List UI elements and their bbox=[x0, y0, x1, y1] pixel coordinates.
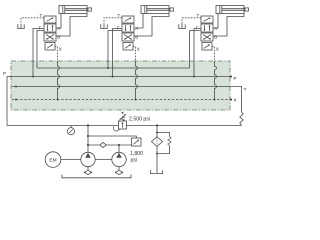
dashed pilot line valve V1 to X manifold line bbox=[55, 47, 58, 62]
junction dot V2 on P line bbox=[112, 76, 114, 78]
pilot section of valve V1 bbox=[45, 43, 55, 51]
suction strainer under pump P1 bbox=[84, 170, 92, 175]
pilot line V3 crossing manifold lines with hops bbox=[215, 61, 217, 100]
junction dot pump P2 riser bbox=[118, 144, 120, 146]
svg-text:X: X bbox=[137, 47, 140, 52]
suction line pump P1 bbox=[87, 167, 89, 171]
junction dot pilot V1 on X line bbox=[57, 99, 59, 101]
svg-text:EM: EM bbox=[49, 157, 56, 163]
svg-text:B: B bbox=[135, 35, 138, 40]
pump P2 outlet riser bbox=[118, 145, 120, 152]
svg-text:X: X bbox=[234, 98, 237, 103]
check valve CV1 bbox=[100, 142, 106, 147]
hydraulic pump P1 bbox=[81, 152, 95, 166]
tank symbol (valve V3 drain) bbox=[179, 24, 185, 29]
wire valve V3 port F down to P manifold line bbox=[194, 29, 201, 77]
valve V1 envelope - crossed flow position bbox=[44, 33, 56, 41]
flexible section in return line bbox=[240, 112, 243, 126]
pilot section of valve V3 bbox=[202, 43, 212, 51]
cylinder C1 barrel bbox=[59, 6, 91, 14]
wire pump P2 delivery line bbox=[88, 144, 132, 146]
bypass line over filter bbox=[157, 133, 170, 137]
manifold enclosure boundary (chain line) bbox=[11, 61, 230, 110]
suction line pump P2 bbox=[118, 167, 120, 171]
junction dot filter outlet bbox=[156, 153, 158, 155]
dashed drain line valve V1 to tank bbox=[21, 18, 44, 24]
pilot section of valve V2 bbox=[123, 43, 133, 51]
relief valve RV1 pilot loop bbox=[113, 126, 119, 131]
svg-text:P: P bbox=[3, 71, 6, 76]
bypass relief spring bbox=[168, 137, 171, 146]
valve V2 envelope - straight flow position bbox=[122, 24, 134, 32]
valve V3 envelope - straight flow position bbox=[201, 24, 213, 32]
pressure gauge G1 bbox=[67, 126, 74, 135]
wire T manifold exit to return line bbox=[230, 87, 242, 113]
junction dot V3 on P line bbox=[193, 76, 195, 78]
wire valve V3 return down to T manifold line bbox=[190, 31, 202, 69]
junction dot V2 return on T line bbox=[107, 67, 109, 69]
pressure supply riser to manifold P bbox=[6, 77, 8, 126]
svg-text:B: B bbox=[214, 35, 217, 40]
valve V3 envelope - crossed flow position bbox=[201, 33, 213, 41]
wire return line down to filter header bbox=[157, 125, 242, 127]
junction dot tank header left bbox=[15, 86, 17, 88]
T return manifold line bbox=[37, 67, 190, 69]
P pressure manifold line bbox=[7, 76, 231, 78]
wire cylinder C1 rod-end to valve port B bbox=[56, 14, 87, 37]
wire valve V2 return down to T manifold line bbox=[108, 31, 122, 69]
wire cylinder C1 cap-end to valve port A bbox=[56, 14, 61, 29]
junction dot X line left bbox=[15, 99, 17, 101]
svg-text:B: B bbox=[57, 35, 60, 40]
pump pressure header line bbox=[7, 125, 119, 127]
junction dot pilot V2 on X line bbox=[135, 99, 137, 101]
suction strainer under pump P2 bbox=[115, 170, 123, 175]
wire cylinder C3 cap-end to valve port A bbox=[213, 14, 218, 29]
unloading valve UV1 body bbox=[132, 138, 142, 146]
dashed drain line valve V2 to tank bbox=[104, 18, 122, 24]
svg-text:X: X bbox=[59, 47, 62, 52]
junction dot pump P2 line tap bbox=[87, 144, 89, 146]
svg-text:1,800: 1,800 bbox=[130, 151, 143, 157]
flow-control section of valve V1 bbox=[44, 16, 56, 23]
dashed drain line valve V3 to tank bbox=[182, 18, 201, 24]
electric motor EM bbox=[45, 152, 61, 168]
pilot line V1 crossing manifold lines with hops bbox=[58, 61, 60, 100]
flow-control section of valve V2 bbox=[122, 16, 134, 23]
junction dot filter bypass tee bbox=[156, 132, 158, 134]
bypass line to filter outlet bbox=[157, 146, 170, 154]
reservoir under pumps bbox=[62, 175, 131, 178]
tank symbol (valve V1 drain) bbox=[18, 24, 24, 29]
wire cylinder C2 cap-end to valve port A bbox=[134, 14, 143, 29]
junction dot filter branch on return line bbox=[156, 124, 158, 126]
svg-text:F: F bbox=[39, 25, 42, 30]
wire valve V1 return down to T manifold line bbox=[37, 31, 44, 69]
motor shaft to pump P1 bbox=[61, 159, 81, 161]
svg-text:T: T bbox=[244, 87, 247, 92]
wire relief valve RV1 outlet to return line bbox=[127, 125, 158, 127]
flow-control section of valve V3 bbox=[201, 16, 213, 23]
wire valve V2 port F down to P manifold line bbox=[113, 29, 123, 77]
tank header manifold line bbox=[12, 86, 230, 88]
junction dot P line right end bbox=[230, 75, 232, 77]
cylinder C2 barrel bbox=[141, 6, 173, 14]
tank symbol (valve V2 drain) bbox=[101, 24, 107, 29]
relief valve RV1 spring and adjustment arrow bbox=[119, 112, 126, 121]
dashed pilot line valve V2 to X manifold line bbox=[133, 47, 136, 62]
relief valve RV1 body bbox=[119, 121, 127, 129]
svg-text:F: F bbox=[196, 25, 199, 30]
svg-text:P: P bbox=[234, 76, 237, 81]
junction dot X line right end bbox=[230, 98, 232, 100]
svg-text:2,500 psi: 2,500 psi bbox=[129, 117, 150, 123]
valve V1 envelope - straight flow position bbox=[44, 24, 56, 32]
wire return line down to filter F1 bbox=[156, 126, 158, 137]
wire cylinder C3 rod-end to valve port B bbox=[213, 14, 244, 37]
reservoir at filter outlet bbox=[151, 170, 163, 173]
pump P1 outlet riser bbox=[87, 126, 89, 153]
wire filter outlet to reservoir bbox=[156, 146, 158, 172]
return filter F1 bbox=[152, 137, 163, 147]
svg-text:psi: psi bbox=[131, 157, 138, 163]
hydraulic pump P2 bbox=[112, 152, 126, 166]
X pilot drain manifold line (dashed) bbox=[12, 99, 231, 101]
wire valve V1 port F down to P manifold line bbox=[33, 29, 44, 77]
svg-text:X: X bbox=[216, 47, 219, 52]
wire cylinder C2 rod-end to valve port B bbox=[134, 14, 169, 37]
manifold enclosure shaded band bbox=[11, 61, 230, 110]
pilot line V2 crossing manifold lines with hops bbox=[136, 61, 138, 100]
dashed pilot line valve V3 to X manifold line bbox=[212, 47, 215, 62]
valve V2 envelope - crossed flow position bbox=[122, 33, 134, 41]
junction dot V1 on P line bbox=[32, 76, 34, 78]
junction dot pilot V3 on X line bbox=[214, 99, 216, 101]
wire pilot tap to unloading valve top bbox=[88, 136, 136, 138]
junction dot unloading pilot tap bbox=[87, 135, 89, 137]
junction dot pump P1 riser on header bbox=[87, 124, 89, 126]
cylinder C3 barrel bbox=[216, 6, 248, 14]
svg-text:F: F bbox=[117, 25, 120, 30]
shaft between pumps bbox=[95, 159, 112, 161]
